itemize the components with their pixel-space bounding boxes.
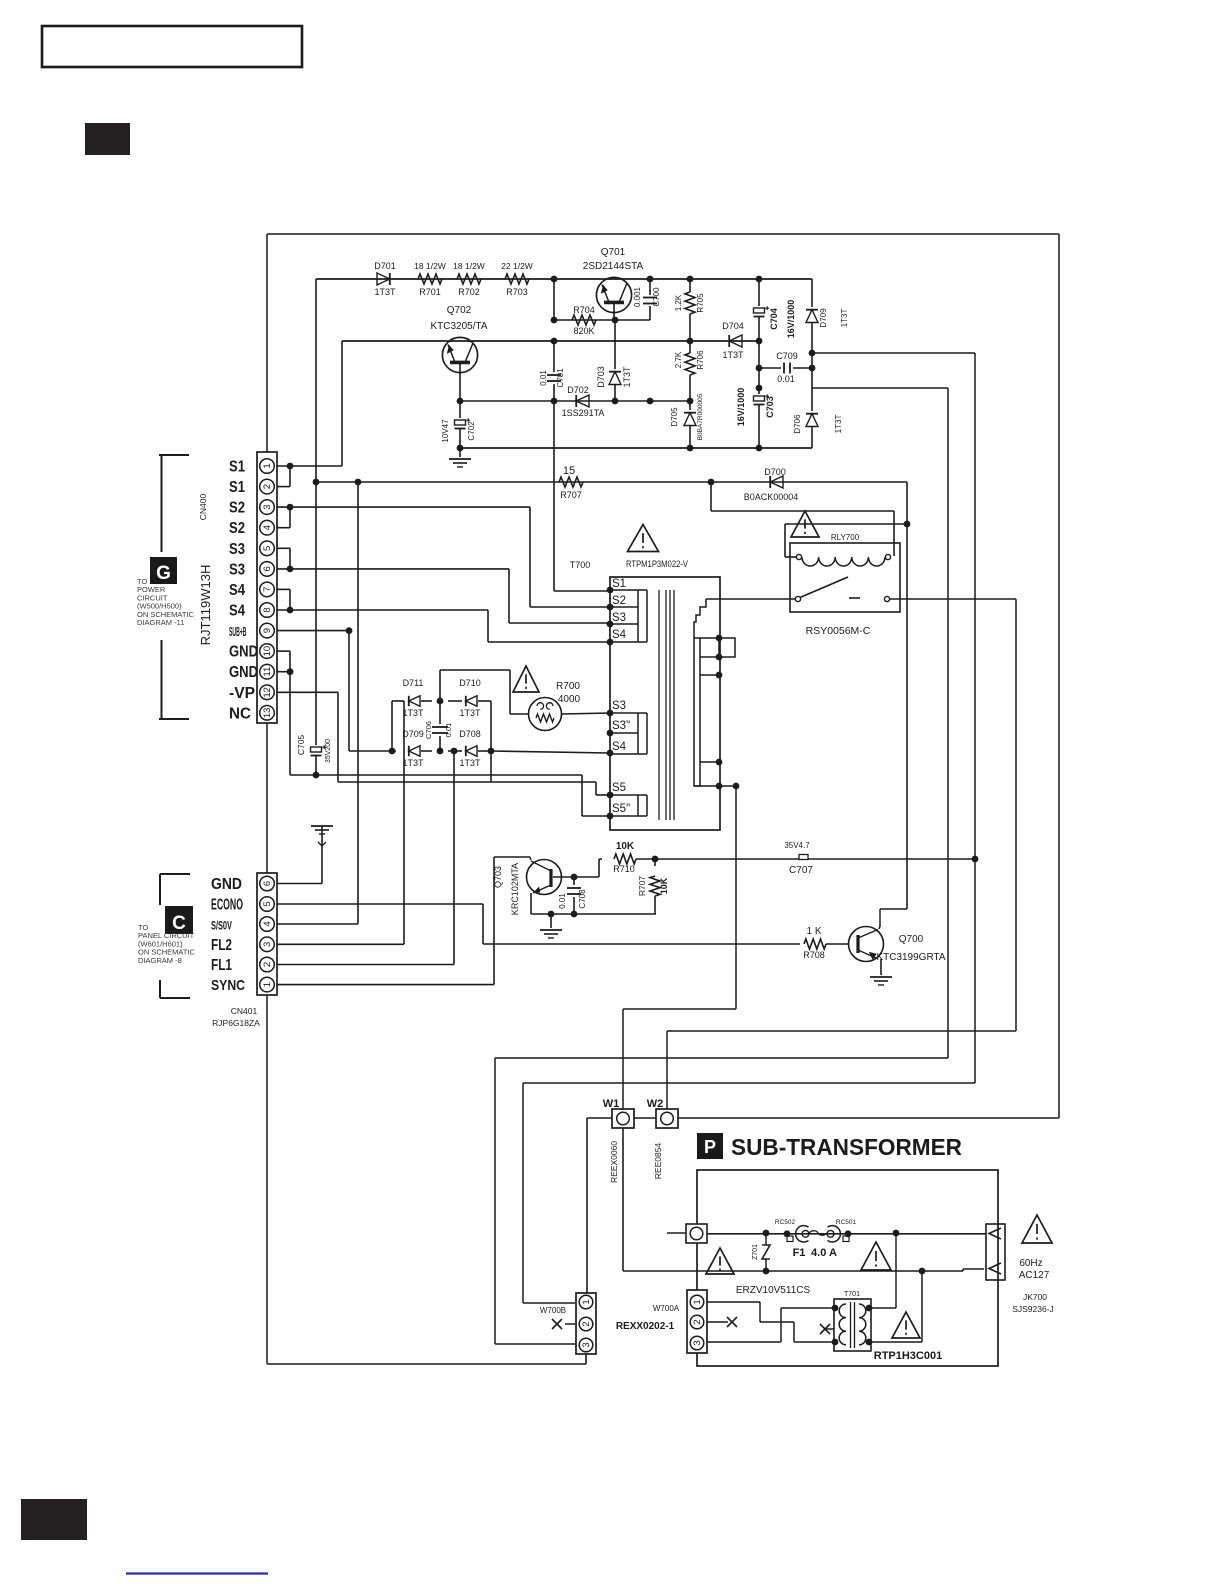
svg-text:S4: S4 [229, 582, 245, 599]
svg-text:FL2: FL2 [211, 937, 232, 954]
svg-text:22 1/2W: 22 1/2W [501, 261, 533, 271]
svg-text:R710: R710 [613, 864, 635, 874]
svg-text:RC501: RC501 [836, 1219, 857, 1226]
svg-text:1T3T: 1T3T [722, 350, 744, 360]
svg-text:ECONO: ECONO [211, 897, 243, 914]
svg-text:4.0 A: 4.0 A [811, 1247, 837, 1259]
svg-text:KTC3199GRTA: KTC3199GRTA [876, 952, 945, 963]
svg-text:SYNC: SYNC [211, 977, 245, 994]
svg-text:S5": S5" [612, 803, 630, 815]
svg-text:C700: C700 [652, 287, 661, 307]
svg-text:B0ACK00004: B0ACK00004 [744, 492, 799, 502]
svg-text:3: 3 [692, 1340, 703, 1345]
svg-text:D704: D704 [722, 321, 744, 331]
svg-text:Z701: Z701 [752, 1244, 759, 1260]
svg-text:C707: C707 [789, 865, 813, 876]
svg-text:R701: R701 [419, 287, 441, 297]
svg-text:1: 1 [692, 1299, 703, 1304]
svg-text:18 1/2W: 18 1/2W [414, 261, 446, 271]
svg-text:2: 2 [581, 1321, 592, 1326]
svg-text:R700: R700 [556, 681, 580, 692]
svg-text:6: 6 [262, 881, 273, 886]
svg-text:1SS291TA: 1SS291TA [562, 408, 605, 418]
svg-text:6: 6 [262, 566, 273, 571]
svg-text:60Hz: 60Hz [1019, 1258, 1042, 1269]
svg-text:10K: 10K [659, 877, 669, 894]
svg-text:-VP: -VP [229, 685, 255, 702]
svg-text:T700: T700 [570, 560, 591, 570]
svg-text:16V/1000: 16V/1000 [786, 300, 796, 339]
svg-text:C703: C703 [765, 396, 775, 418]
svg-text:3: 3 [581, 1342, 592, 1347]
svg-text:8: 8 [262, 607, 273, 612]
svg-text:S2: S2 [229, 520, 245, 537]
svg-text:R704: R704 [573, 305, 595, 315]
svg-text:16V/1000: 16V/1000 [736, 388, 746, 427]
svg-text:C706: C706 [424, 721, 433, 739]
svg-text:CN400: CN400 [198, 494, 208, 521]
svg-text:S5: S5 [612, 782, 626, 794]
svg-text:1: 1 [262, 982, 273, 987]
svg-text:R707: R707 [637, 876, 647, 897]
svg-text:13: 13 [262, 708, 273, 719]
svg-text:10: 10 [262, 646, 273, 657]
svg-text:RC502: RC502 [775, 1219, 796, 1226]
svg-text:R703: R703 [506, 287, 528, 297]
svg-text:S4: S4 [229, 603, 245, 620]
svg-text:1T3T: 1T3T [402, 758, 424, 768]
svg-text:1.2K: 1.2K [674, 294, 683, 311]
svg-text:T701: T701 [844, 1291, 860, 1298]
svg-text:35V4.7: 35V4.7 [784, 841, 810, 850]
svg-text:S1: S1 [229, 479, 245, 496]
svg-text:W1: W1 [603, 1098, 620, 1110]
svg-text:S4: S4 [612, 629, 627, 641]
svg-text:2.7K: 2.7K [674, 351, 683, 368]
svg-text:NC: NC [229, 705, 251, 722]
svg-text:DIAGRAM -11: DIAGRAM -11 [137, 618, 184, 627]
svg-text:JK700: JK700 [1023, 1292, 1047, 1302]
svg-text:S1: S1 [612, 578, 626, 590]
svg-text:GND: GND [211, 876, 242, 893]
svg-text:7: 7 [262, 587, 273, 592]
svg-text:2: 2 [262, 962, 273, 967]
svg-text:C709: C709 [776, 351, 798, 361]
svg-text:D700: D700 [764, 467, 786, 477]
svg-text:DIAGRAM -8: DIAGRAM -8 [138, 956, 182, 965]
svg-text:B0BA7R000005: B0BA7R000005 [697, 393, 704, 440]
svg-text:REXX0202-1: REXX0202-1 [616, 1321, 675, 1332]
svg-text:D703: D703 [596, 366, 606, 388]
svg-text:5: 5 [262, 901, 273, 906]
svg-text:1T3T: 1T3T [374, 287, 396, 297]
svg-text:Q700: Q700 [899, 934, 924, 945]
svg-text:GND: GND [229, 664, 258, 681]
svg-text:1T3T: 1T3T [622, 366, 632, 388]
svg-text:GND: GND [229, 644, 258, 661]
svg-text:S3: S3 [229, 541, 245, 558]
svg-text:RSY0056M-C: RSY0056M-C [806, 625, 871, 637]
svg-text:R707: R707 [560, 490, 582, 500]
svg-text:C702: C702 [467, 421, 476, 441]
svg-text:D706: D706 [793, 414, 802, 434]
svg-text:D709: D709 [402, 729, 424, 739]
svg-text:Q703: Q703 [493, 866, 503, 888]
svg-text:SUB+B: SUB+B [229, 625, 247, 639]
svg-text:1T3T: 1T3T [402, 708, 424, 718]
svg-text:W700A: W700A [653, 1304, 680, 1313]
svg-text:3: 3 [262, 504, 273, 509]
svg-text:S3: S3 [612, 700, 626, 712]
svg-text:4: 4 [262, 525, 273, 530]
svg-text:CN401: CN401 [231, 1006, 258, 1016]
svg-text:15: 15 [563, 465, 575, 477]
svg-text:S2: S2 [612, 595, 626, 607]
svg-text:RTPM1P3M022-V: RTPM1P3M022-V [626, 559, 689, 570]
svg-text:RTP1H3C001: RTP1H3C001 [874, 1350, 942, 1362]
svg-text:D701: D701 [374, 261, 396, 271]
svg-text:10K: 10K [616, 841, 635, 852]
svg-text:1 K: 1 K [806, 926, 821, 937]
svg-text:SJS9236-J: SJS9236-J [1012, 1304, 1054, 1314]
svg-text:C705: C705 [296, 735, 306, 756]
svg-text:0.01: 0.01 [539, 370, 548, 386]
svg-text:1T3T: 1T3T [834, 415, 843, 434]
svg-text:2: 2 [262, 484, 273, 489]
svg-text:S1: S1 [229, 459, 245, 476]
svg-text:0.01: 0.01 [777, 374, 795, 384]
svg-text:2SD2144STA: 2SD2144STA [583, 261, 644, 272]
svg-text:5: 5 [262, 546, 273, 551]
svg-text:REE0854: REE0854 [653, 1143, 663, 1180]
svg-text:ERZV10V511CS: ERZV10V511CS [736, 1285, 811, 1296]
svg-text:C708: C708 [578, 889, 587, 909]
svg-text:18 1/2W: 18 1/2W [453, 261, 485, 271]
svg-text:1T3T: 1T3T [459, 708, 481, 718]
svg-text:S3: S3 [229, 561, 245, 578]
svg-text:SUB-TRANSFORMER: SUB-TRANSFORMER [731, 1134, 962, 1160]
svg-text:4000: 4000 [558, 694, 581, 705]
svg-text:4: 4 [262, 921, 273, 926]
svg-text:S2: S2 [229, 500, 245, 517]
svg-text:KRC102MTA: KRC102MTA [510, 863, 520, 915]
svg-text:12: 12 [262, 687, 273, 698]
svg-text:Q701: Q701 [601, 247, 626, 258]
svg-text:820K: 820K [573, 326, 594, 336]
svg-text:11: 11 [262, 667, 273, 677]
svg-text:R702: R702 [458, 287, 480, 297]
svg-text:RJT119W13H: RJT119W13H [198, 565, 213, 646]
svg-text:KTC3205/TA: KTC3205/TA [430, 321, 487, 332]
svg-text:2: 2 [692, 1319, 703, 1324]
svg-text:RLY700: RLY700 [831, 533, 860, 542]
svg-text:0.01: 0.01 [558, 893, 567, 909]
svg-text:P: P [704, 1137, 716, 1157]
svg-text:R705: R705 [696, 293, 705, 313]
svg-text:D709: D709 [819, 308, 828, 328]
svg-text:Q702: Q702 [447, 305, 472, 316]
svg-text:REEX0060: REEX0060 [609, 1141, 619, 1183]
svg-text:W2: W2 [647, 1098, 664, 1110]
svg-text:RJP6G18ZA: RJP6G18ZA [212, 1018, 260, 1028]
svg-text:1T3T: 1T3T [459, 758, 481, 768]
svg-text:1: 1 [262, 463, 273, 468]
svg-text:10V47: 10V47 [441, 419, 450, 443]
svg-text:0.001: 0.001 [633, 286, 642, 307]
svg-text:R708: R708 [803, 950, 825, 960]
svg-text:1: 1 [581, 1299, 592, 1304]
svg-text:1T3T: 1T3T [840, 309, 849, 328]
svg-text:C701: C701 [556, 368, 565, 388]
svg-text:35V200: 35V200 [325, 739, 332, 763]
svg-text:D710: D710 [459, 678, 481, 688]
svg-text:D708: D708 [459, 729, 481, 739]
svg-text:D711: D711 [403, 678, 424, 688]
svg-text:D705: D705 [670, 407, 679, 427]
svg-text:S3": S3" [612, 720, 630, 732]
svg-text:9: 9 [262, 628, 273, 633]
svg-text:R706: R706 [696, 350, 705, 370]
svg-text:S3: S3 [612, 612, 626, 624]
svg-text:W700B: W700B [540, 1306, 566, 1315]
svg-text:G: G [156, 563, 171, 584]
svg-text:FL1: FL1 [211, 957, 232, 974]
svg-text:3: 3 [262, 942, 273, 947]
svg-text:AC127: AC127 [1019, 1270, 1050, 1281]
svg-text:S/S0V: S/S0V [211, 919, 232, 933]
svg-text:S4: S4 [612, 741, 627, 753]
svg-text:D702: D702 [567, 385, 589, 395]
svg-text:C704: C704 [769, 308, 779, 330]
svg-text:F1: F1 [793, 1247, 806, 1259]
svg-text:0.01: 0.01 [444, 723, 453, 738]
